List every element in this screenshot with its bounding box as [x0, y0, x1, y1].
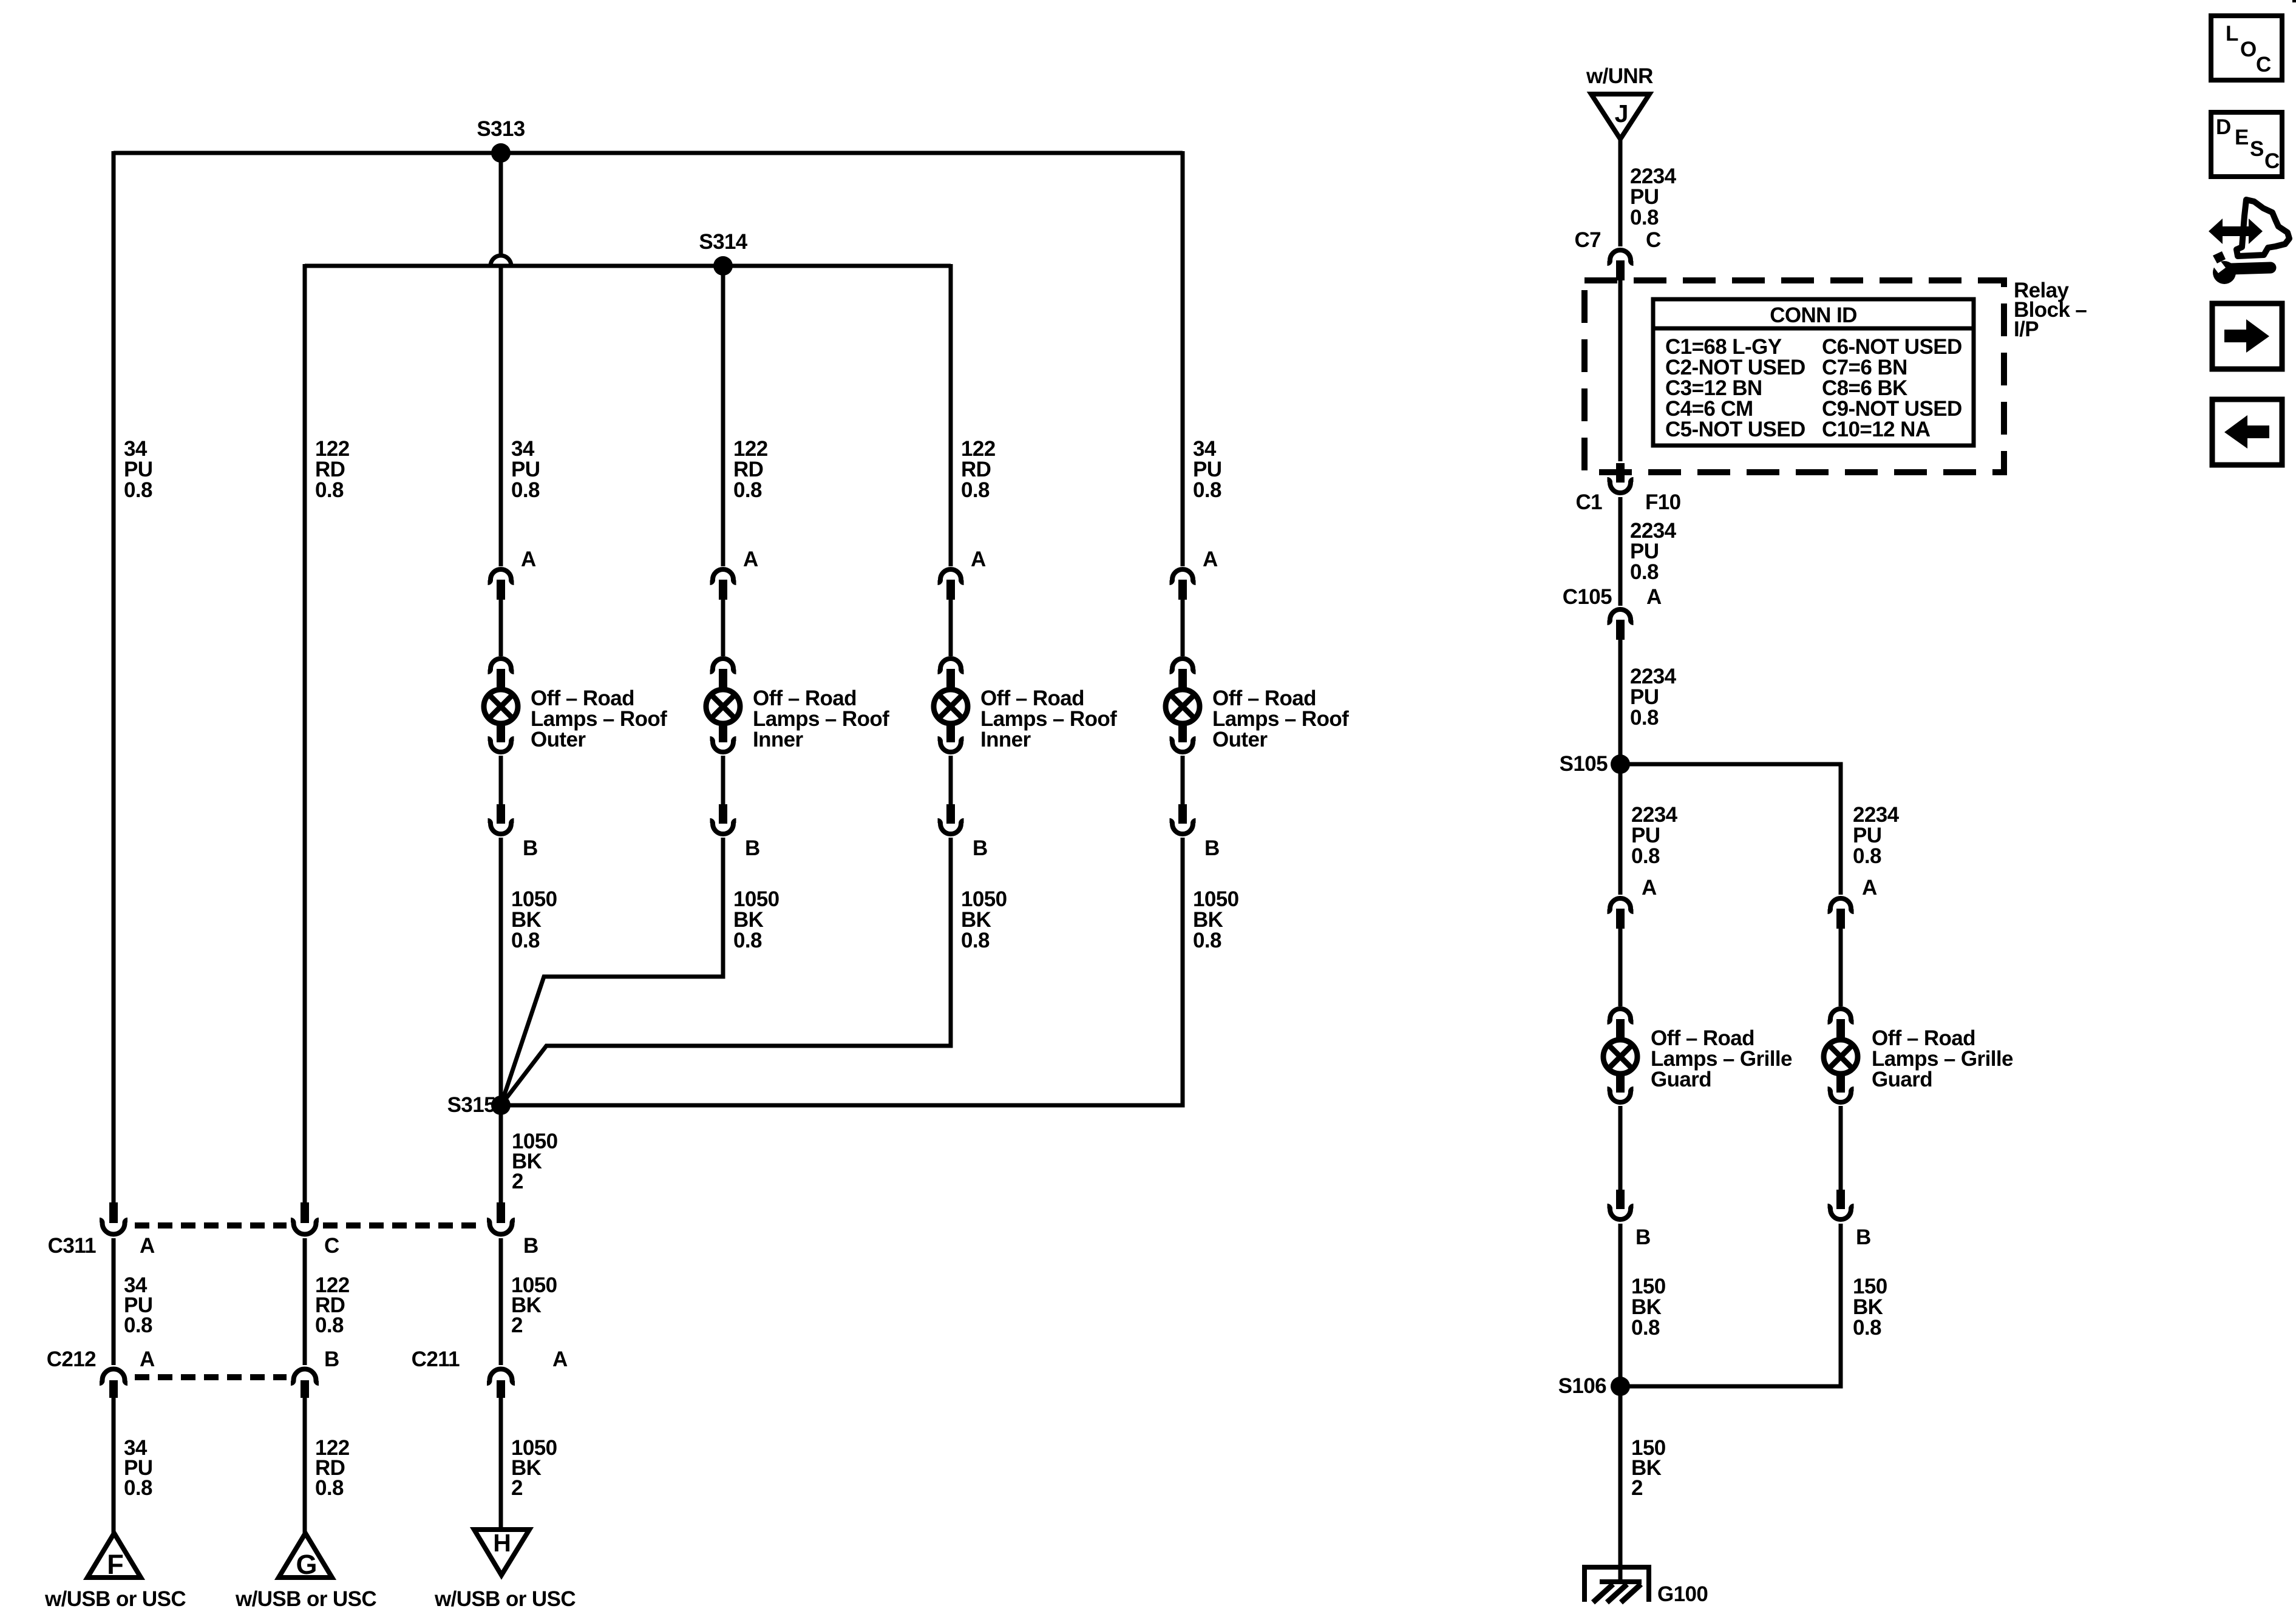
wire label 1050 BK 0.8 (lamp 2 ground lead) [733, 887, 779, 952]
connector C311 pin C (second column) [291, 1202, 339, 1258]
wire: lamp column 1 upper [499, 266, 503, 566]
svg-text:2: 2 [511, 1313, 523, 1337]
connector pin A, roof lamp 1 [488, 547, 537, 600]
wire: into roof lamp 2 [721, 600, 725, 656]
connector pin B, roof lamp 1 [488, 804, 538, 860]
svg-text:0.8: 0.8 [511, 929, 540, 952]
svg-text:0.8: 0.8 [124, 1476, 152, 1500]
svg-text:CONN ID: CONN ID [1770, 303, 1857, 327]
connector pin A, left grille lamp [1608, 876, 1657, 929]
svg-text:S313: S313 [477, 117, 525, 141]
connector C7 pin C (relay block IP) [1574, 228, 1661, 280]
connector pin A, roof lamp 4 [1170, 547, 1218, 600]
svg-text:S315: S315 [447, 1093, 495, 1117]
svg-text:Outer: Outer [1212, 728, 1268, 751]
wire: out of roof lamp 2 [721, 756, 725, 805]
icon: forward arrow box [2212, 303, 2282, 369]
off-page connector triangle F [87, 1533, 141, 1580]
wire label 1050 BK 0.8 (lamp 1 ground lead) [511, 887, 557, 952]
wire: S105 down to left grille lamp [1618, 764, 1623, 895]
wire label 1050 BK 2 (col3 bottom) [511, 1436, 557, 1500]
wire: col3 down to triangle H [499, 1398, 503, 1532]
svg-text:0.8: 0.8 [1630, 560, 1659, 584]
wire label 34 PU 0.8 [511, 437, 540, 502]
splice S106 [1558, 1374, 1630, 1398]
svg-text:Inner: Inner [980, 728, 1031, 751]
svg-text:0.8: 0.8 [1193, 478, 1221, 502]
wire label 1050 BK 0.8 (lamp 3 ground lead) [961, 887, 1007, 952]
off-page connector triangle G [279, 1533, 332, 1580]
svg-text:C5-NOT USED: C5-NOT USED [1665, 418, 1805, 441]
svg-text:B: B [1204, 836, 1220, 860]
svg-text:w/USB or USC: w/USB or USC [434, 1587, 576, 1611]
wire: S314 bus horizontal [305, 264, 951, 268]
svg-text:Guard: Guard [1651, 1068, 1711, 1091]
wire: left grille ground to S106 [1618, 1224, 1623, 1386]
connector C311 body (dashed) [135, 1222, 483, 1229]
lamp: Off-Road Lamps Grille Guard (right) [1824, 1009, 2013, 1102]
svg-text:C: C [2256, 53, 2271, 76]
wire: into roof lamp 3 [949, 600, 953, 656]
svg-text:0.8: 0.8 [733, 478, 762, 502]
wire: col2 down to triangle G [303, 1398, 307, 1536]
icon: double-arrow with wrench (component view) [2209, 200, 2289, 284]
svg-text:0.8: 0.8 [1631, 844, 1660, 868]
connector pin B, left grille lamp [1608, 1190, 1651, 1249]
ground G100 [1584, 1567, 1708, 1606]
connector C212 body (dashed) [135, 1374, 287, 1380]
svg-text:0.8: 0.8 [733, 929, 762, 952]
svg-text:Inner: Inner [753, 728, 804, 751]
connector pin A, right grille lamp [1828, 876, 1878, 929]
connector C212 pin A (left column) [47, 1347, 155, 1398]
svg-text:E: E [2235, 126, 2249, 149]
svg-text:C212: C212 [47, 1347, 96, 1371]
wire: into left grille lamp [1618, 929, 1623, 1006]
wire: S315 down to connector B [499, 1105, 503, 1204]
svg-text:S105: S105 [1560, 752, 1608, 776]
wire: lamp column 3 upper [949, 264, 953, 566]
wire label 150 BK 0.8 (right) [1853, 1275, 1887, 1340]
wire: S106 down to G100 [1618, 1386, 1623, 1582]
connector pin A, roof lamp 3 [938, 547, 987, 600]
svg-text:A: A [1642, 876, 1657, 900]
svg-text:B: B [1635, 1225, 1651, 1249]
svg-text:L: L [2226, 22, 2238, 46]
lamp: Off-Road Lamps Roof Inner (3) [934, 659, 1117, 752]
wire label 2234 PU 0.8 (C1 to C105) [1630, 519, 1677, 584]
svg-text:C211: C211 [412, 1347, 460, 1371]
svg-text:0.8: 0.8 [961, 478, 990, 502]
wire: left branch 34 PU down to C311 [112, 151, 116, 1204]
svg-text:I/P: I/P [2014, 317, 2039, 341]
svg-text:w/UNR: w/UNR [1586, 64, 1653, 88]
label Relay Block - I/P [2014, 279, 2087, 341]
icon: LOC box [2211, 16, 2282, 80]
lamp: Off-Road Lamps Roof Inner (2) [706, 659, 889, 752]
svg-text:C105: C105 [1563, 585, 1612, 609]
svg-text:0.8: 0.8 [124, 478, 152, 502]
svg-text:G: G [296, 1549, 317, 1580]
wire: feed bus S313 horizontal [114, 151, 1183, 155]
svg-text:0.8: 0.8 [315, 1313, 344, 1337]
wire: right grille ground to S106 [1620, 1224, 1841, 1386]
wire: out of roof lamp 3 [949, 756, 953, 805]
svg-text:Outer: Outer [531, 728, 586, 751]
icon: DESC box [2211, 112, 2282, 177]
wire: second branch 122 RD down to C311 [303, 264, 307, 1204]
svg-text:D: D [2216, 115, 2231, 139]
svg-text:2: 2 [511, 1476, 523, 1500]
svg-text:0.8: 0.8 [1853, 844, 1881, 868]
svg-text:G100: G100 [1657, 1582, 1708, 1606]
svg-text:A: A [521, 547, 536, 571]
wire: col1 down to triangle F [112, 1398, 116, 1536]
wire: lamp column 2 upper [721, 266, 725, 566]
wire label 34 PU 0.8 [1193, 437, 1221, 502]
splice S313 [477, 117, 525, 163]
svg-text:C: C [324, 1234, 339, 1258]
svg-text:0.8: 0.8 [315, 1476, 344, 1500]
wire: lamp 3 ground lead to S315 [501, 838, 951, 1105]
wire: col2 between C311 and C212 [303, 1238, 307, 1365]
svg-text:0.8: 0.8 [511, 478, 540, 502]
wire: S105 branch to right grille lamp [1620, 764, 1841, 895]
lamp: Off-Road Lamps Grille Guard (left) [1603, 1009, 1792, 1102]
svg-text:0.8: 0.8 [1193, 929, 1221, 952]
connector pin B, roof lamp 4 [1170, 804, 1220, 860]
wire: lamp 1 ground lead down to S315 [499, 838, 503, 1105]
wire label 1050 BK 2 (below S315) [512, 1130, 558, 1193]
wire: into roof lamp 4 [1181, 600, 1185, 656]
svg-text:0.8: 0.8 [1630, 206, 1659, 229]
wire label 1050 BK 0.8 (lamp 4 ground lead) [1193, 887, 1239, 952]
wire hop over S314 bus [491, 256, 511, 266]
wire label 122 RD 0.8 (col2 mid) [315, 1273, 350, 1337]
svg-text:C311: C311 [48, 1234, 96, 1258]
svg-text:0.8: 0.8 [1631, 1316, 1660, 1340]
page corner mark [2292, 0, 2296, 2]
wire: out of roof lamp 4 [1181, 756, 1185, 805]
connector C105 pin A [1563, 585, 1662, 640]
svg-text:2: 2 [512, 1170, 523, 1193]
wire label 2234 PU 0.8 (C105 to S105) [1630, 665, 1677, 730]
wire: lamp 4 ground lead to S315 [501, 838, 1183, 1105]
svg-text:0.8: 0.8 [961, 929, 990, 952]
wire label 122 RD 0.8 [961, 437, 996, 502]
svg-text:S: S [2250, 137, 2264, 161]
wire label 34 PU 0.8 (col1 bottom) [124, 1436, 152, 1500]
wire label 2234 PU 0.8 (J to C7) [1630, 164, 1677, 229]
svg-text:A: A [1203, 547, 1218, 571]
svg-text:A: A [1862, 876, 1877, 900]
svg-text:H: H [493, 1529, 511, 1557]
svg-text:C: C [1646, 228, 1661, 252]
wire label 34 PU 0.8 (col1 mid) [124, 1273, 152, 1337]
svg-text:C10=12 NA: C10=12 NA [1822, 418, 1931, 441]
wire: through relay block [1618, 280, 1623, 461]
splice S314 [699, 230, 747, 276]
wire: col1 between C311 and C212 [112, 1238, 116, 1365]
connector C1 pin F10 (relay block bottom) [1575, 463, 1680, 514]
svg-text:B: B [745, 836, 760, 860]
svg-text:0.8: 0.8 [1630, 706, 1659, 730]
connector pin B, right grille lamp [1828, 1190, 1871, 1249]
relay block I/P dashed outline [1584, 280, 2004, 472]
svg-text:S106: S106 [1558, 1374, 1606, 1398]
wire: from J to C7 [1618, 139, 1623, 246]
off-page connector triangle J [1591, 94, 1649, 139]
wire label 150 BK 2 (S106 to ground) [1631, 1436, 1666, 1500]
wire label 122 RD 0.8 [733, 437, 768, 502]
lamp: Off-Road Lamps Roof Outer (1) [484, 659, 667, 752]
connector pin A, roof lamp 2 [710, 547, 759, 600]
svg-text:Guard: Guard [1872, 1068, 1932, 1091]
wire label 2234 PU 0.8 (left grille feed) [1631, 803, 1678, 868]
icon: back arrow box [2212, 399, 2282, 465]
off-page connector triangle H [474, 1529, 529, 1575]
splice S315 [447, 1093, 511, 1117]
wire: out of left grille lamp [1618, 1106, 1623, 1190]
wire: out of right grille lamp [1839, 1106, 1843, 1190]
splice S105 [1560, 752, 1630, 776]
wire label 34 PU 0.8 [124, 437, 152, 502]
svg-text:A: A [1646, 585, 1662, 609]
svg-text:B: B [973, 836, 988, 860]
connector C311 pin B (third column) [487, 1202, 538, 1258]
wire: out of roof lamp 1 [499, 756, 503, 805]
svg-text:0.8: 0.8 [1853, 1316, 1881, 1340]
svg-text:B: B [523, 1234, 538, 1258]
wire: lamp column 4 upper [1181, 151, 1185, 566]
svg-text:w/USB or USC: w/USB or USC [235, 1587, 376, 1611]
svg-text:B: B [523, 836, 538, 860]
svg-text:O: O [2240, 38, 2257, 61]
wire: from S313 down to hop [499, 153, 503, 256]
svg-text:C7: C7 [1574, 228, 1601, 252]
svg-text:C1: C1 [1575, 490, 1602, 514]
wire label 122 RD 0.8 (col2 bottom) [315, 1436, 350, 1500]
wire label 1050 BK 2 (col3 mid) [511, 1273, 557, 1337]
svg-text:A: A [552, 1347, 568, 1371]
connector pin B, roof lamp 3 [938, 804, 988, 860]
connector C211 pin A (third column) [412, 1347, 568, 1398]
svg-text:0.8: 0.8 [315, 478, 344, 502]
wire: into roof lamp 1 [499, 600, 503, 656]
wire: C105 to S105 [1618, 640, 1623, 764]
wire label 2234 PU 0.8 (right grille feed) [1853, 803, 1900, 868]
svg-text:C: C [2264, 149, 2280, 173]
connector C212 pin B (second column) [291, 1347, 339, 1398]
svg-text:F: F [107, 1549, 124, 1580]
svg-text:w/USB or USC: w/USB or USC [44, 1587, 186, 1611]
connector C311 pin A (left column) [48, 1202, 155, 1258]
connector pin B, roof lamp 2 [710, 804, 760, 860]
svg-text:0.8: 0.8 [124, 1313, 152, 1337]
svg-text:F10: F10 [1645, 490, 1681, 514]
svg-text:A: A [743, 547, 758, 571]
wire label 150 BK 0.8 (left) [1631, 1275, 1666, 1340]
wire label 122 RD 0.8 [315, 437, 350, 502]
svg-text:J: J [1615, 100, 1629, 127]
wire: into right grille lamp [1839, 929, 1843, 1006]
svg-text:B: B [324, 1347, 339, 1371]
svg-text:A: A [140, 1234, 155, 1258]
svg-text:S314: S314 [699, 230, 747, 254]
wire: col3 between C311 and C211 [499, 1238, 503, 1365]
wire: C1 to C105 [1618, 497, 1623, 606]
svg-text:2: 2 [1631, 1476, 1643, 1500]
svg-text:B: B [1856, 1225, 1871, 1249]
svg-text:A: A [971, 547, 986, 571]
CONN ID table [1653, 299, 1974, 446]
svg-text:A: A [140, 1347, 155, 1371]
wire: lamp 2 ground lead to S315 [501, 838, 723, 1105]
lamp: Off-Road Lamps Roof Outer (4) [1166, 659, 1349, 752]
